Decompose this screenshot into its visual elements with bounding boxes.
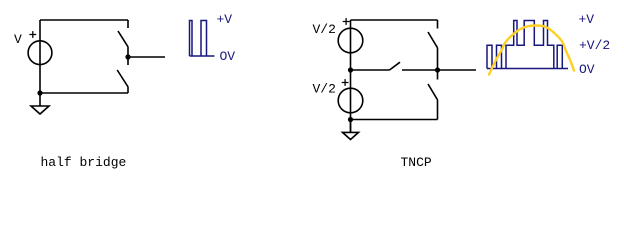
voltage source V/2 top [338, 28, 363, 53]
wire bottom rail left circuit [40, 92, 128, 94]
svg-text:OV: OV [579, 62, 595, 77]
svg-text:OV: OV [220, 49, 236, 64]
wire top rail left circuit [40, 19, 128, 21]
wire middle branch left TNCP [351, 69, 390, 71]
switch S4 top right (stub, blade, contact) [428, 20, 438, 70]
plus sign of source V [29, 31, 36, 38]
svg-text:V/2: V/2 [313, 22, 336, 37]
node bottom TNCP [348, 117, 353, 122]
plus sign of top V/2 source [343, 18, 350, 25]
svg-text:+V/2: +V/2 [579, 38, 610, 53]
switch S2 bottom (stub, blade, contact) [117, 57, 128, 93]
svg-text:V: V [14, 32, 22, 47]
waveform half-bridge baseline 0V [190, 55, 215, 57]
wire top rail TNCP [351, 19, 438, 21]
node output left circuit [125, 54, 130, 59]
node middle left TNCP [348, 67, 353, 72]
node output TNCP [435, 67, 440, 72]
waveform TNCP pulse A [487, 45, 492, 68]
ground left circuit [31, 106, 49, 114]
voltage source V [28, 41, 52, 65]
svg-text:+V: +V [217, 12, 233, 27]
wire left rail through sources TNCP [350, 20, 352, 132]
waveform TNCP pulse C [557, 45, 562, 68]
svg-text:half bridge: half bridge [41, 155, 127, 170]
wire output left circuit [128, 56, 165, 58]
wire left vertical through source V [39, 20, 41, 93]
switch S5 bottom right (stub, blade, contact) [428, 70, 438, 120]
wire ground stub left [39, 93, 41, 106]
waveform half-bridge pulse 2 [201, 21, 207, 57]
svg-text:V/2: V/2 [313, 82, 336, 97]
svg-text:+V: +V [579, 12, 595, 27]
voltage source V/2 bottom [338, 88, 363, 113]
waveform half-bridge pulse 1 [190, 21, 193, 57]
svg-text:TNCP: TNCP [401, 155, 432, 170]
plus sign of bottom V/2 source [342, 79, 349, 86]
waveform TNCP pulse B [497, 45, 502, 68]
wire middle branch right and output TNCP [402, 69, 476, 71]
switch S1 top (stub, blade, contact) [118, 20, 128, 57]
ground TNCP [343, 132, 359, 139]
sine reference curve [489, 26, 574, 75]
wire ground stub TNCP [350, 120, 352, 133]
waveform TNCP baseline 0V [487, 68, 568, 70]
switch S3 middle blade [390, 62, 401, 70]
node bottom left circuit [37, 90, 42, 95]
waveform TNCP middle multilevel pulses [506, 21, 554, 69]
wire bottom rail TNCP [351, 119, 438, 121]
